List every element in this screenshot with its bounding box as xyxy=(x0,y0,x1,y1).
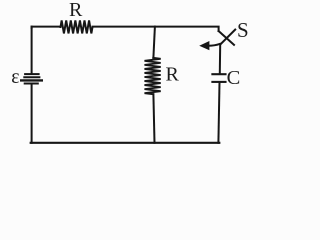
svg-text:R: R xyxy=(69,0,83,21)
wire left vertical lower xyxy=(31,85,33,143)
resistor R1 xyxy=(61,20,93,33)
wire middle vertical lower xyxy=(153,94,154,143)
switch arrow head xyxy=(200,42,209,50)
switch S fixed contact stroke xyxy=(219,31,234,45)
wire top-right segment with step down to switch xyxy=(93,27,219,31)
capacitor C top plate xyxy=(212,73,225,75)
wire right vertical lower xyxy=(218,83,219,143)
resistor R2 xyxy=(145,58,161,94)
battery cell plate 1 xyxy=(25,73,38,75)
capacitor C bottom plate xyxy=(212,81,225,83)
svg-text:S: S xyxy=(237,18,249,42)
wire bottom xyxy=(31,142,220,144)
svg-text:ε: ε xyxy=(11,67,19,88)
battery cell plate 4 xyxy=(25,83,38,85)
svg-text:R: R xyxy=(166,64,180,86)
wire right vertical from switch pivot to capacitor xyxy=(219,44,221,73)
battery cell plate 2 xyxy=(24,76,39,78)
wire top-left segment xyxy=(32,27,61,28)
battery cell plate 3 (long) xyxy=(21,79,42,81)
switch arrow shaft xyxy=(207,44,220,46)
wire middle vertical upper xyxy=(153,27,155,58)
switch S blade xyxy=(220,30,235,45)
wire left vertical upper xyxy=(31,27,33,74)
svg-text:C: C xyxy=(227,67,241,89)
